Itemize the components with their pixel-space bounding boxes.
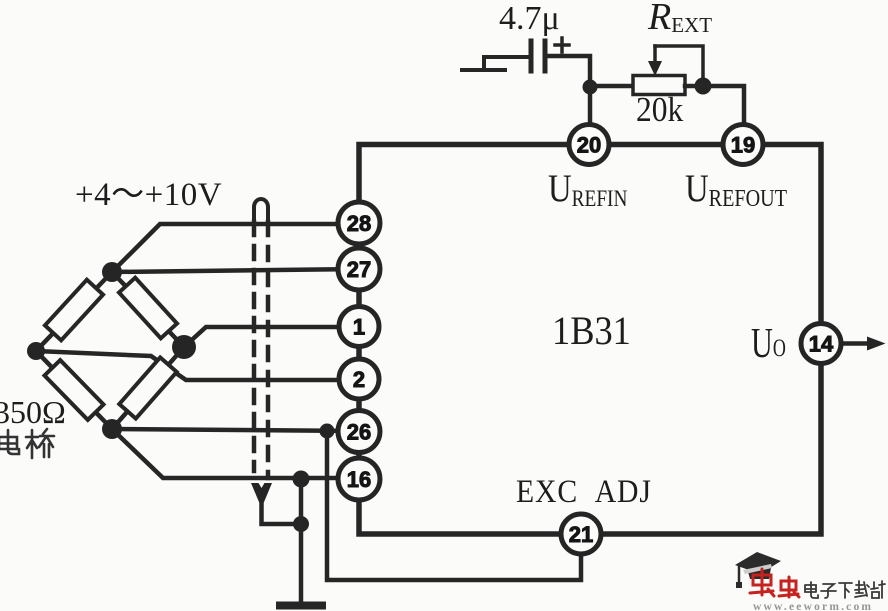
wire node A to potentiometer left terminal xyxy=(590,84,633,89)
wire output arrow from pin 14 xyxy=(842,341,872,346)
node junction dot on pin 16 wire xyxy=(293,471,310,488)
svg-text:4.7μ: 4.7μ xyxy=(499,0,560,37)
capacitor C1 4.7u plates xyxy=(531,41,545,71)
ground G1 (capacitor negative return) xyxy=(462,57,531,70)
cable shield dashed run left xyxy=(252,222,257,471)
svg-text:16: 16 xyxy=(347,467,371,492)
pin 27 xyxy=(338,248,380,290)
pin 16 xyxy=(338,458,380,500)
label EXC ADJ pin 21 xyxy=(516,473,652,510)
svg-text:1B31: 1B31 xyxy=(552,309,631,353)
potentiometer R_EXT body 20k xyxy=(633,76,685,95)
wire shield drain to ground node xyxy=(262,505,302,524)
svg-text:21: 21 xyxy=(569,522,593,547)
node A junction dot (cap / pot left / pin 20) xyxy=(583,80,598,95)
label IC type 1B31 xyxy=(552,309,631,353)
wire capacitor to node A xyxy=(545,56,590,124)
capacitor C1 polarity plus mark xyxy=(555,38,569,52)
bridge arm wire top-right xyxy=(112,272,184,347)
resistor R2 bridge top-right xyxy=(119,278,177,339)
cable shield dashed run right xyxy=(266,222,271,478)
pin 21 xyxy=(561,514,601,554)
pin 19 xyxy=(723,125,763,165)
svg-text:1: 1 xyxy=(353,315,365,340)
bridge arm wire top-left xyxy=(36,272,112,351)
svg-text:28: 28 xyxy=(347,211,371,236)
wire bridge bottom node to pin 26 xyxy=(112,429,360,431)
svg-text:EXC ADJ: EXC ADJ xyxy=(516,473,652,510)
svg-text:27: 27 xyxy=(347,257,371,282)
label R_EXT value 20k xyxy=(636,91,684,130)
svg-text:350Ω: 350Ω xyxy=(0,394,66,430)
svg-text:2: 2 xyxy=(353,367,365,392)
pin 26 xyxy=(338,411,380,453)
svg-text:26: 26 xyxy=(347,420,371,445)
wire pot right terminal to pin 19 xyxy=(685,86,744,126)
cable shield drain arrowhead xyxy=(251,483,272,508)
node bridge top junction dot xyxy=(102,262,122,282)
watermark graduation cap icon xyxy=(735,552,781,588)
node junction dot on pin 26 wire xyxy=(320,424,335,439)
IC U1 1B31 body outline xyxy=(359,145,821,535)
wire bridge top node to pin 28 xyxy=(112,224,360,272)
label U_REFOUT pin 19 xyxy=(685,166,787,211)
bridge arm wire bottom-right xyxy=(112,347,184,429)
wire pin 26 node down and across to pin 21 xyxy=(327,431,581,580)
node bridge right junction dot xyxy=(172,335,196,359)
wire pin 16 node to ground xyxy=(299,478,304,602)
svg-text:+4～+10V: +4～+10V xyxy=(75,177,222,213)
node junction dot shield drain tie xyxy=(293,516,309,532)
svg-text:www.eeworm.com: www.eeworm.com xyxy=(753,601,873,611)
resistor R4 bridge bottom-right xyxy=(119,357,176,418)
node B junction dot (pot right / wiper) xyxy=(695,78,712,95)
wire bridge top node to pin 27 xyxy=(112,269,360,272)
svg-text:20: 20 xyxy=(577,133,601,158)
svg-text:19: 19 xyxy=(731,133,755,158)
bridge arm wire bottom-left xyxy=(36,351,112,429)
label U_REFIN pin 20 xyxy=(548,166,627,211)
wire bridge left node to pin 2 xyxy=(36,351,360,380)
potentiometer R_EXT wiper arrow xyxy=(653,46,657,64)
node bridge left junction dot xyxy=(27,342,45,360)
svg-text:14: 14 xyxy=(809,332,834,357)
wire bridge right node to pin 1 xyxy=(184,327,360,347)
svg-text:20k: 20k xyxy=(636,91,684,130)
pin 28 xyxy=(338,202,380,244)
pin 2 xyxy=(339,359,379,399)
watermark site name characters xyxy=(805,581,885,598)
resistor R3 bridge bottom-left xyxy=(44,360,103,420)
cable shield top loop xyxy=(254,199,268,221)
wire wiper loop to node B xyxy=(655,46,703,86)
pin 20 xyxy=(569,125,609,165)
pin 14 xyxy=(801,324,841,364)
resistor R1 bridge top-left xyxy=(45,280,103,341)
wire bridge bottom node to pin 16 xyxy=(112,429,360,478)
node bridge bottom junction dot xyxy=(102,419,122,439)
watermark chongchong red characters xyxy=(750,569,799,597)
label U_O output xyxy=(751,319,786,366)
label bridge chinese dianqiao xyxy=(0,429,54,458)
pin 1 xyxy=(339,307,379,347)
ground G2 bar xyxy=(280,602,322,610)
